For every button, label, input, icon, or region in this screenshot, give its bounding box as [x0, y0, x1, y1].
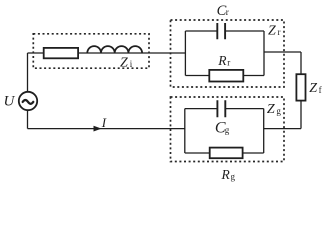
resistor Zf [296, 74, 305, 100]
Zg loop left branch [184, 109, 186, 153]
svg-text:r: r [227, 58, 230, 68]
capacitor Cg plates [217, 100, 225, 117]
svg-text:R: R [221, 167, 231, 182]
resistor Rg [210, 148, 243, 159]
wire below Zf [300, 101, 302, 129]
AC source tilde [23, 100, 34, 104]
wire bottom horizontal from source to Zg network [28, 128, 185, 130]
wire from Zr network to Zf [264, 51, 301, 53]
wire down to Zf [300, 52, 302, 74]
svg-text:U: U [4, 94, 16, 110]
wire top horizontal from source to Zr network [28, 52, 186, 54]
current arrow I [94, 126, 102, 132]
capacitor Cr plates [217, 23, 225, 39]
dashed box Zi [33, 34, 149, 68]
inductor in Zi box [87, 46, 142, 53]
wire left vertical below source [27, 110, 29, 128]
svg-text:Z: Z [267, 102, 275, 117]
svg-text:Z: Z [120, 56, 128, 71]
Zr bottom branch wires [185, 75, 264, 77]
svg-text:R: R [217, 53, 227, 68]
Zg top branch wires [185, 108, 264, 110]
wire from Zf to Zg network [264, 128, 301, 130]
svg-text:I: I [101, 115, 107, 130]
Zr loop left branch [184, 31, 186, 76]
Zg loop right branch [263, 109, 265, 153]
Zr top branch wires [185, 30, 264, 32]
dashed box Zr [171, 20, 285, 87]
svg-text:g: g [276, 106, 281, 116]
resistor Rr [209, 70, 243, 82]
resistor in Zi box [44, 48, 78, 58]
svg-text:Z: Z [268, 24, 276, 39]
svg-text:Z: Z [309, 81, 317, 96]
svg-text:f: f [319, 85, 322, 95]
svg-text:g: g [231, 172, 236, 182]
dashed box Zg [171, 97, 285, 162]
Zg bottom branch wires [185, 152, 264, 154]
svg-text:r: r [226, 7, 229, 17]
AC source U circle [19, 92, 37, 110]
wire left vertical above source [27, 53, 29, 92]
svg-text:r: r [278, 27, 281, 37]
Zr loop right branch [263, 31, 265, 76]
svg-text:g: g [225, 125, 230, 135]
